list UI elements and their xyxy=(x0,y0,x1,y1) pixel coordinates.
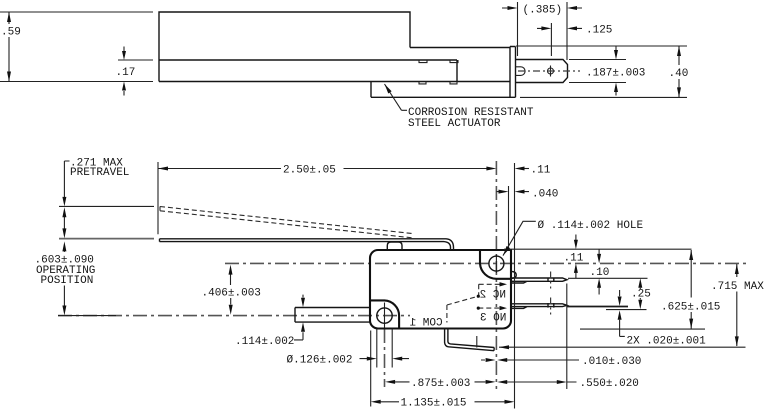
internal circuit dashed xyxy=(447,282,507,322)
dim .11 right xyxy=(564,235,584,279)
dim 1.135 xyxy=(371,398,515,410)
svg-text:.040: .040 xyxy=(532,189,558,201)
centerline through mounting holes horizontal top xyxy=(225,262,748,264)
svg-text:Ø .114±.002 HOLE: Ø .114±.002 HOLE xyxy=(538,220,644,232)
top hole boss xyxy=(480,250,511,279)
dim .603 operating position xyxy=(35,241,96,315)
svg-text:COM 1: COM 1 xyxy=(409,317,442,329)
lever free position dashed xyxy=(160,207,413,238)
svg-text:.59: .59 xyxy=(1,27,21,39)
svg-text:.125: .125 xyxy=(586,25,612,37)
centerline through bottom hole horizontal xyxy=(58,315,410,317)
centerline bottom hole vertical xyxy=(384,329,386,387)
extension lines bottom drawing xyxy=(59,162,705,409)
dim .11 top xyxy=(515,165,551,177)
terminal centerline xyxy=(518,70,580,72)
svg-text:.40: .40 xyxy=(669,68,689,80)
dim .10 xyxy=(590,249,610,294)
svg-text:.715 MAX: .715 MAX xyxy=(711,281,764,293)
no terminal xyxy=(511,303,567,308)
terminal hole centers xyxy=(550,272,552,315)
svg-text:2X .020±.001: 2X .020±.001 xyxy=(627,336,707,348)
dim .40 xyxy=(516,46,688,97)
dim 2.50 xyxy=(158,165,496,177)
svg-text:.406±.003: .406±.003 xyxy=(202,288,261,300)
svg-text:STEEL ACTUATOR: STEEL ACTUATOR xyxy=(408,118,501,130)
svg-text:.625±.015: .625±.015 xyxy=(661,302,720,314)
dim dia .126 xyxy=(287,354,410,366)
svg-text:2.50±.05: 2.50±.05 xyxy=(283,165,336,177)
svg-text:.10: .10 xyxy=(590,267,610,279)
svg-text:POSITION: POSITION xyxy=(41,275,94,287)
leader corrosion resistant steel actuator xyxy=(383,83,534,130)
actuator retaining tabs xyxy=(419,60,458,84)
svg-text:.187±.003: .187±.003 xyxy=(586,68,645,80)
svg-text:.550±.020: .550±.020 xyxy=(580,378,639,390)
svg-text:.25: .25 xyxy=(631,289,651,301)
dim .125 xyxy=(537,23,612,56)
hinge bar xyxy=(295,308,370,323)
dim (.385) xyxy=(502,2,582,60)
svg-text:.114±.002: .114±.002 xyxy=(235,336,294,348)
terminal side view xyxy=(516,60,568,83)
dim .040 xyxy=(496,189,558,201)
nc terminal xyxy=(511,277,567,283)
dim .010 xyxy=(481,356,641,368)
dim .25 xyxy=(606,278,651,309)
svg-text:.17: .17 xyxy=(116,67,136,79)
centerline top hole vertical xyxy=(495,161,497,389)
svg-text:.11: .11 xyxy=(531,165,551,177)
lever operating position xyxy=(160,239,454,250)
svg-text:NC 2: NC 2 xyxy=(480,289,506,301)
bottom mounting hole xyxy=(377,308,392,323)
dim .17 xyxy=(116,47,154,96)
switch body outline (bottom drawing) xyxy=(370,250,511,329)
svg-text:.11: .11 xyxy=(564,253,584,265)
dim .625 xyxy=(661,250,720,329)
svg-text:.010±.030: .010±.030 xyxy=(582,356,641,368)
dim .59 xyxy=(0,12,153,82)
dim .406 xyxy=(202,265,261,315)
dim .875 xyxy=(385,378,496,390)
dim .187 xyxy=(569,47,645,96)
dim .114 bar xyxy=(235,295,305,348)
mirrored marking NC 2 xyxy=(480,289,506,301)
top mounting hole xyxy=(489,256,504,271)
dim .550 xyxy=(497,378,639,390)
switch end cap (top drawing) xyxy=(510,47,516,98)
mirrored marking NO 3 xyxy=(480,313,506,325)
bent com terminal xyxy=(445,329,495,351)
svg-text:(.385): (.385) xyxy=(523,5,563,17)
svg-text:Ø.126±.002: Ø.126±.002 xyxy=(287,354,353,366)
terminal root bump xyxy=(511,272,516,279)
svg-text:.875±.003: .875±.003 xyxy=(411,378,470,390)
svg-text:1.135±.015: 1.135±.015 xyxy=(401,398,467,410)
dim 2x .020 xyxy=(618,290,707,348)
terminal hole xyxy=(548,66,554,77)
dim .271 pretravel xyxy=(62,157,129,238)
svg-text:NO 3: NO 3 xyxy=(480,313,506,325)
plunger dome xyxy=(387,242,402,250)
bottom hole boss xyxy=(371,300,399,328)
leader hole callout xyxy=(501,220,643,257)
dim .715 xyxy=(711,264,764,346)
mirrored marking COM 1 xyxy=(409,317,442,329)
actuator side-view outline (top drawing) xyxy=(159,12,510,97)
bent terminal extension xyxy=(499,345,746,349)
svg-text:PRETRAVEL: PRETRAVEL xyxy=(70,167,129,179)
